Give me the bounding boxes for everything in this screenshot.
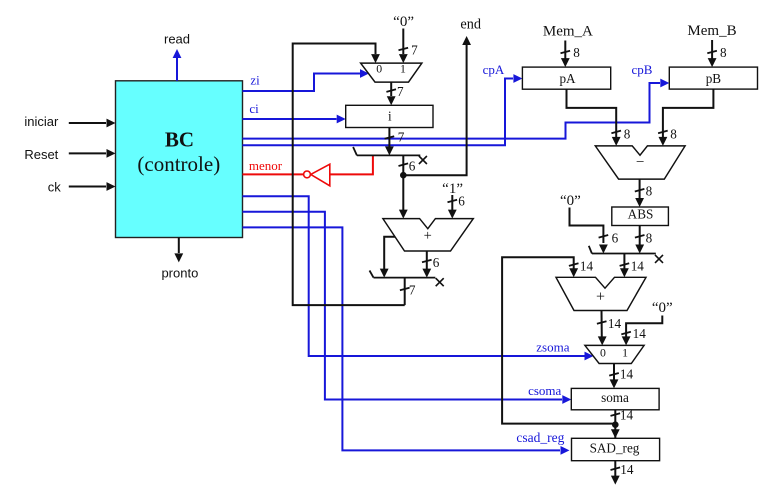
svg-text:14: 14	[620, 367, 634, 382]
svg-text:ci: ci	[249, 101, 259, 116]
wire A1 carry out to merger S2	[380, 237, 395, 278]
node N1 junction	[400, 172, 407, 179]
wire subtractor output bus 8 to ABS	[635, 179, 653, 207]
svg-text:pronto: pronto	[161, 266, 198, 281]
wire inverter input (red) from splitter S1	[330, 155, 373, 174]
svg-text:−: −	[636, 155, 644, 171]
wire A2 output bus 14 to mux M2	[597, 311, 622, 346]
svg-text:Reset: Reset	[24, 147, 58, 162]
wire csad_reg (blue) with label	[243, 227, 570, 454]
svg-text:6: 6	[458, 194, 465, 209]
label Mem_A	[543, 23, 593, 39]
svg-text:14: 14	[631, 259, 645, 274]
wire mux M1 output bus 7	[386, 82, 404, 105]
mux M2 (0/1)	[585, 345, 644, 363]
wire soma feedback bus 14 to adder A2	[502, 257, 615, 423]
svg-text:+: +	[596, 289, 605, 306]
svg-text:Mem_B: Mem_B	[687, 23, 736, 39]
inverter G1 (red)	[304, 164, 330, 186]
svg-text:14: 14	[580, 259, 594, 274]
svg-text:8: 8	[670, 126, 677, 141]
svg-text:7: 7	[397, 84, 404, 99]
wire A1 sum bus 6 to merger S2	[422, 251, 440, 278]
constant "0" bus 7 into mux M1	[393, 14, 418, 63]
block ABS	[612, 207, 669, 226]
svg-text:14: 14	[633, 326, 647, 341]
wire ABS output bus 8 to merger S3	[635, 226, 653, 254]
svg-text:Mem_A: Mem_A	[543, 23, 593, 39]
subtractor U1 (-)	[595, 146, 685, 179]
register pB	[669, 67, 757, 89]
svg-text:6: 6	[612, 230, 619, 245]
svg-text:zi: zi	[250, 72, 260, 87]
svg-text:+: +	[424, 228, 432, 244]
svg-text:8: 8	[573, 45, 580, 60]
wire soma output bus 14	[611, 408, 634, 439]
wire csoma (blue) with label	[243, 212, 572, 404]
wire zsoma (blue) with label	[243, 196, 594, 360]
wire ci (blue) with label	[243, 101, 346, 124]
register pA	[522, 67, 610, 89]
svg-text:6: 6	[433, 255, 440, 270]
svg-text:1: 1	[622, 346, 628, 360]
svg-text:6: 6	[409, 158, 416, 173]
svg-text:ABS: ABS	[628, 207, 654, 222]
svg-text:14: 14	[620, 462, 634, 477]
wire pA output bus 8 to subtractor	[567, 89, 631, 146]
input Reset	[24, 147, 115, 162]
input iniciar	[24, 114, 115, 129]
wire Mem_A input bus 8	[561, 41, 581, 68]
register SAD_reg	[572, 438, 660, 460]
wire SAD_reg output bus 14	[611, 461, 634, 485]
merger S3 (14 bits)	[589, 246, 663, 263]
svg-text:ck: ck	[48, 179, 62, 194]
svg-text:8: 8	[646, 184, 653, 199]
svg-text:pB: pB	[706, 71, 722, 86]
adder A2 (+)	[556, 277, 646, 310]
svg-text:“0”: “0”	[652, 300, 673, 316]
svg-text:BC: BC	[165, 127, 194, 151]
svg-text:end: end	[460, 17, 481, 33]
wire M2 output bus 14 to register soma	[609, 364, 633, 389]
wire pB output bus 8 to subtractor	[658, 89, 713, 146]
wire zi (blue) with label	[243, 69, 370, 91]
wire S3 output bus 14 to adder A2	[620, 254, 645, 278]
svg-text:“0”: “0”	[393, 14, 414, 30]
svg-text:pA: pA	[559, 71, 576, 86]
svg-text:csoma: csoma	[528, 383, 561, 398]
svg-text:zsoma: zsoma	[536, 339, 569, 354]
svg-text:iniciar: iniciar	[24, 114, 59, 129]
input ck	[48, 179, 116, 194]
output read (blue wire up)	[164, 32, 190, 81]
register soma	[571, 388, 659, 409]
svg-text:menor: menor	[249, 158, 283, 173]
svg-text:SAD_reg: SAD_reg	[590, 440, 640, 455]
bus i[5:0] width 6 from S1 to node N1	[399, 155, 416, 175]
svg-text:cpB: cpB	[632, 62, 653, 77]
control unit BC (controle)	[116, 81, 243, 238]
svg-text:7: 7	[409, 283, 416, 298]
constant "1" bus 6 into adder A1	[442, 181, 465, 219]
svg-text:1: 1	[400, 61, 406, 75]
svg-text:“0”: “0”	[560, 193, 581, 209]
svg-text:0: 0	[376, 61, 382, 75]
adder A1 (+)	[383, 219, 473, 251]
mux M1 (0/1)	[361, 61, 422, 82]
svg-text:8: 8	[720, 45, 727, 60]
constant "0" bus 14 into mux M2	[621, 300, 672, 345]
wire Mem_B input bus 8	[707, 40, 727, 67]
node N2 junction	[611, 421, 620, 438]
svg-text:14: 14	[608, 316, 622, 331]
wire node N1 to adder A1	[399, 175, 408, 218]
wire cpB (blue) with label	[243, 62, 670, 139]
wire register i output bus 7	[385, 128, 405, 156]
svg-text:7: 7	[411, 42, 418, 57]
svg-text:read: read	[164, 32, 190, 47]
wire i+1 feedback bus 7 to mux M1	[293, 44, 416, 306]
svg-text:0: 0	[600, 346, 606, 360]
merger S2 (7 bits)	[370, 271, 444, 287]
wire cpA (blue) with label	[243, 62, 523, 146]
svg-text:7: 7	[398, 130, 405, 145]
svg-text:8: 8	[646, 230, 653, 245]
constant "0" bus 6 into merger S3	[560, 193, 619, 254]
svg-text:cpA: cpA	[483, 62, 505, 77]
svg-text:8: 8	[624, 126, 631, 141]
wire end (up from node N1)	[403, 17, 481, 176]
output pronto	[161, 238, 198, 281]
svg-text:14: 14	[620, 408, 634, 423]
svg-text:i: i	[388, 108, 392, 123]
svg-text:(controle): (controle)	[137, 152, 220, 176]
label Mem_B	[687, 23, 736, 39]
svg-text:csad_reg: csad_reg	[516, 430, 564, 445]
splitter S1 (i to 6 bits + msb)	[353, 147, 427, 164]
register i	[346, 105, 433, 127]
svg-text:soma: soma	[601, 390, 629, 405]
wire menor (red) from inverter to BC	[243, 158, 304, 175]
